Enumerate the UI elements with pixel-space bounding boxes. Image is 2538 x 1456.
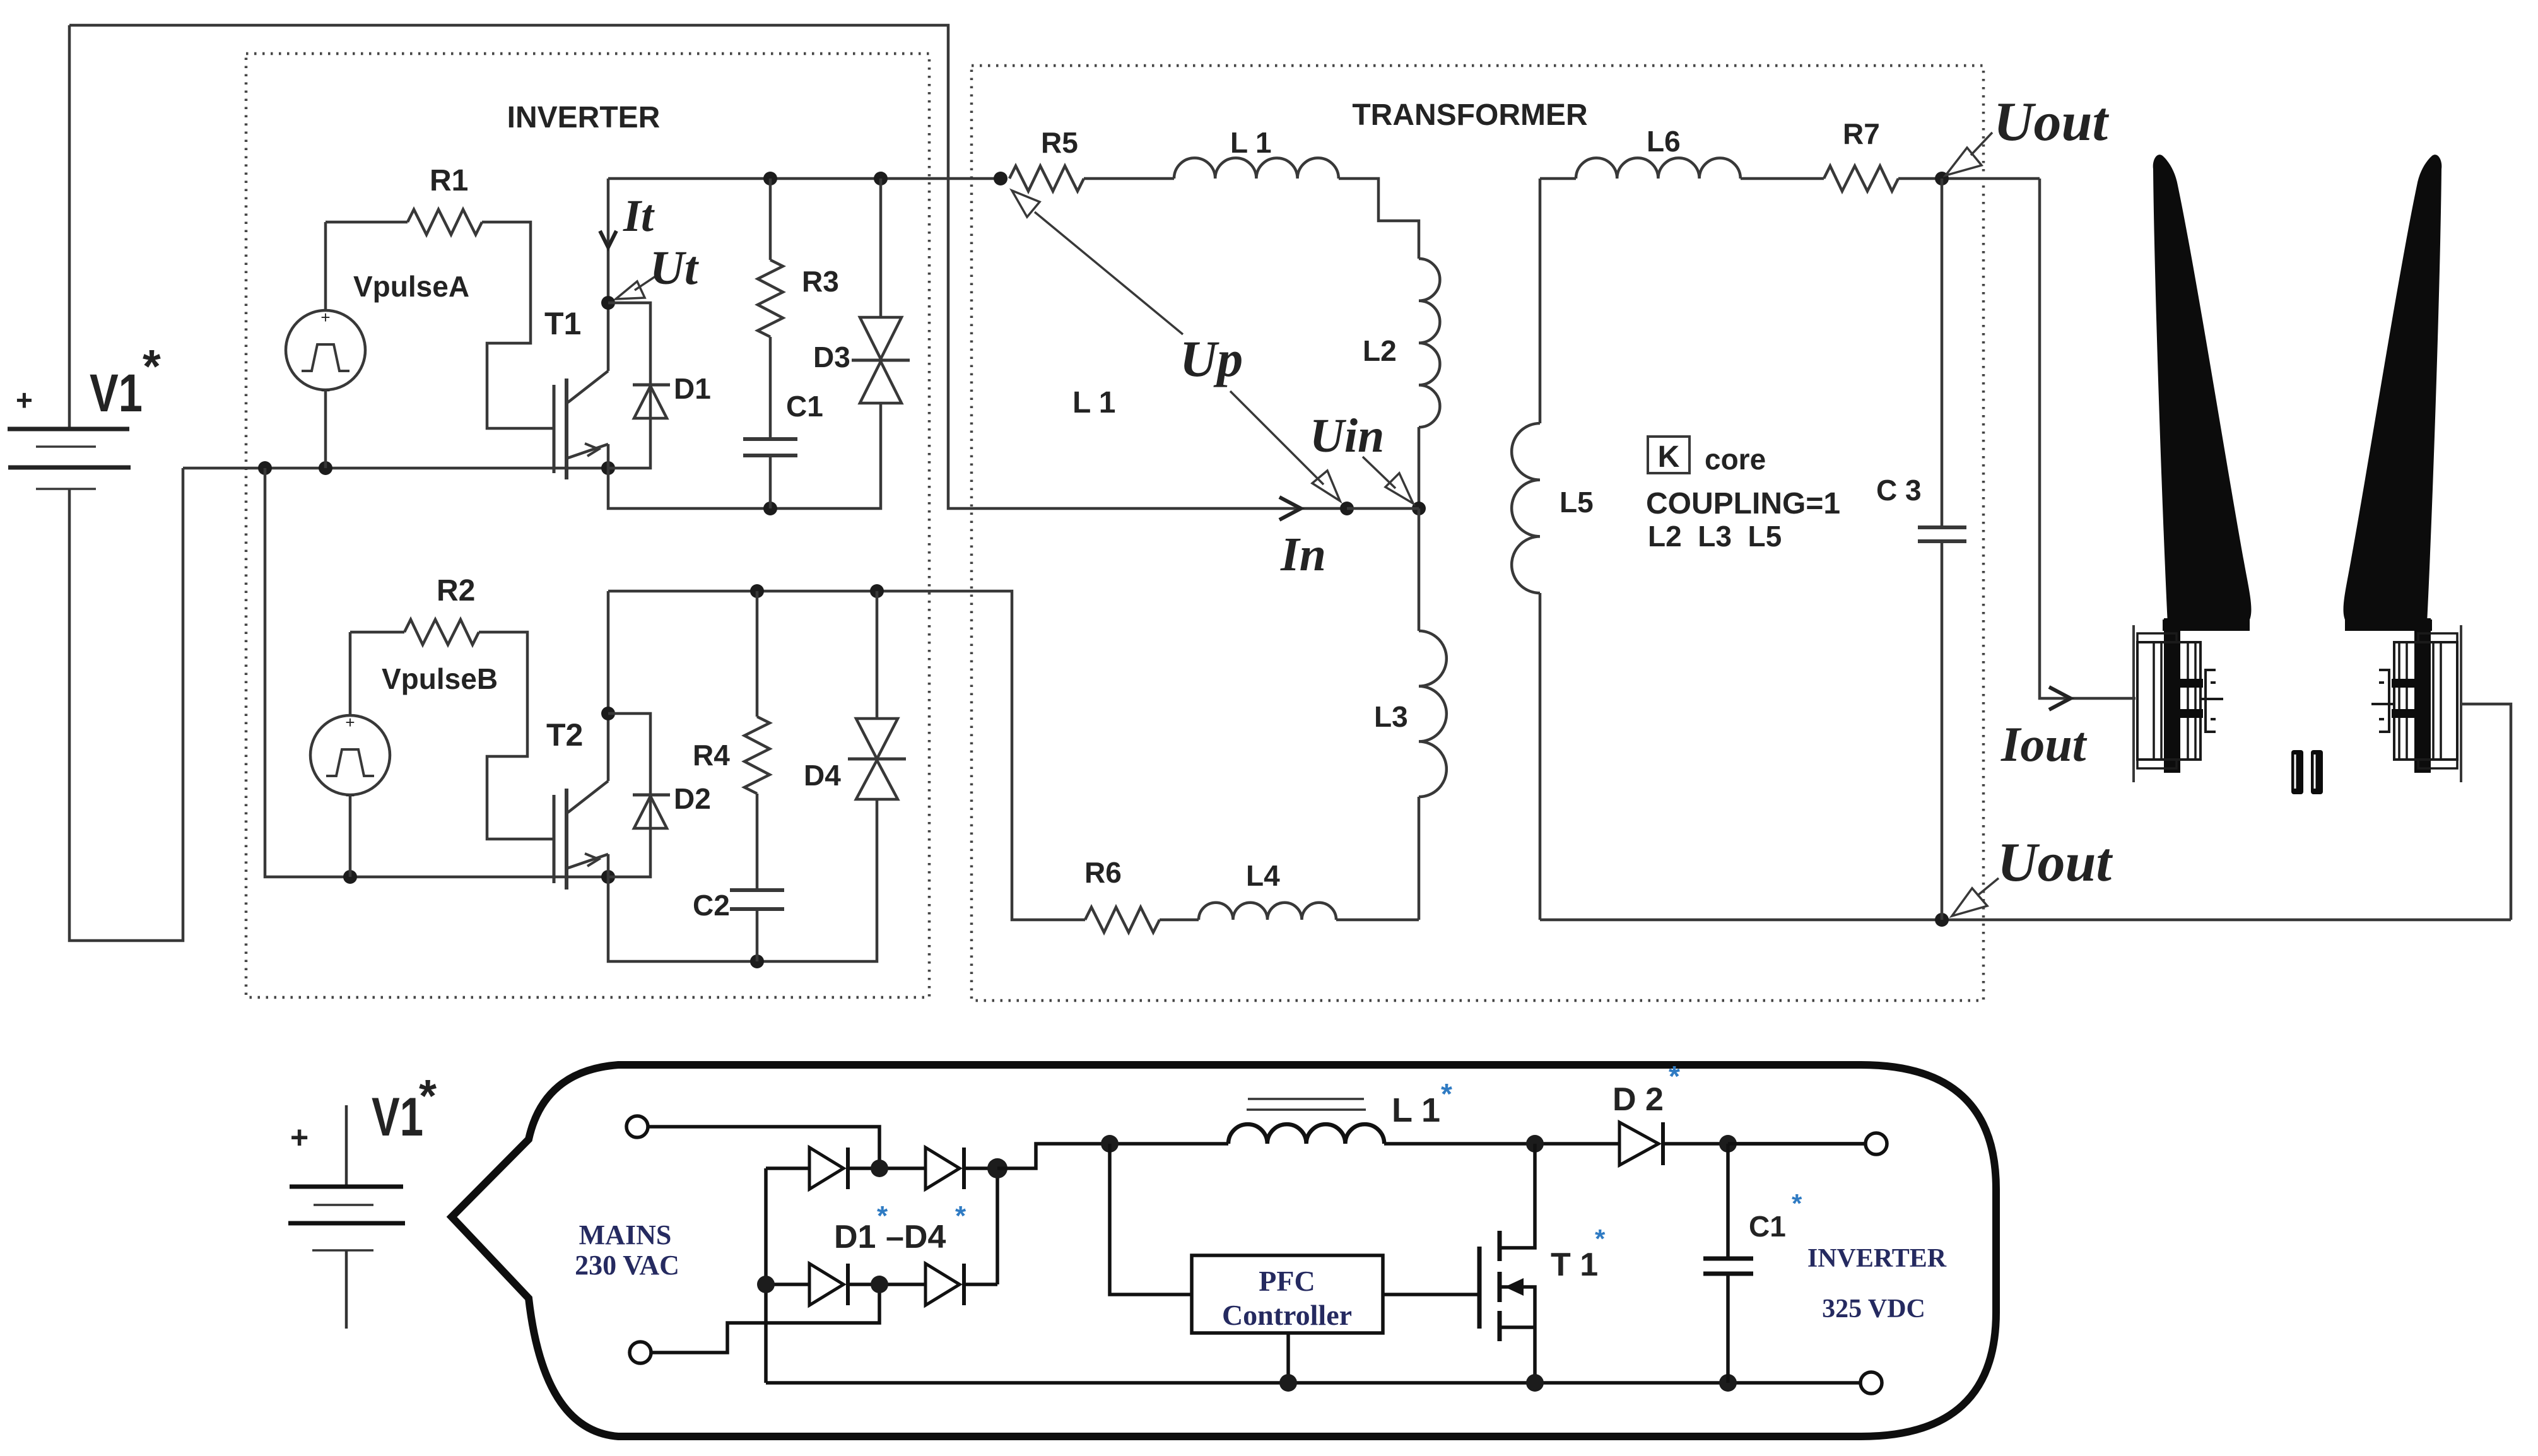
svg-text:*: * [419, 1071, 437, 1122]
label TRANSFORMER [1352, 98, 1587, 132]
svg-text:*: * [1669, 1060, 1680, 1093]
node top rail R3 [763, 172, 777, 185]
svg-text:*: * [955, 1201, 966, 1231]
svg-text:In: In [1280, 528, 1326, 581]
svg-text:R5: R5 [1041, 126, 1078, 159]
node T1* drain [1526, 1135, 1544, 1153]
wire PFC bottom [1286, 1333, 1290, 1383]
svg-text:V1: V1 [90, 363, 143, 423]
wire left drop to lower rail [265, 468, 608, 877]
svg-text:PFC: PFC [1259, 1265, 1315, 1297]
It current arrow [600, 179, 655, 303]
node T1* source [1526, 1374, 1544, 1392]
wire T2 collector drop [607, 591, 610, 713]
svg-text:L3: L3 [1374, 700, 1408, 733]
node mid rail c [601, 461, 615, 475]
node C3 bottom [1935, 913, 1949, 927]
svg-text:T1: T1 [544, 306, 581, 341]
spark gap bars [2291, 750, 2323, 794]
transistor T1 (IGBT) [544, 303, 608, 479]
label D1*-D4* [834, 1201, 966, 1255]
resistor R7 [1824, 117, 2040, 191]
output terminal top [1728, 1133, 1887, 1154]
right forceps connector [2371, 625, 2461, 782]
node mid rail a [258, 461, 272, 475]
svg-text:325 VDC: 325 VDC [1822, 1295, 1925, 1324]
node In [1340, 502, 1354, 515]
svg-text:core: core [1705, 443, 1766, 476]
svg-text:C1: C1 [1749, 1210, 1786, 1243]
PFC bubble outline [452, 1065, 1996, 1436]
wire secondary bottom rail [1540, 919, 2511, 922]
node lower top rail D4 [870, 584, 884, 598]
svg-text:C1: C1 [786, 390, 823, 423]
svg-text:TRANSFORMER: TRANSFORMER [1352, 98, 1587, 132]
wire L1* to D2* [1384, 1142, 1619, 1146]
svg-text:*: * [1595, 1224, 1606, 1253]
svg-text:–D4: –D4 [886, 1219, 946, 1255]
node C1* bottom [1719, 1374, 1737, 1392]
svg-text:V1: V1 [372, 1087, 423, 1148]
capacitor C3 [1876, 179, 1966, 920]
source VpulseB [310, 632, 498, 877]
wire bottom rail [766, 1381, 1860, 1385]
node Uin [1412, 502, 1426, 515]
svg-text:L 1: L 1 [1392, 1091, 1440, 1129]
resistor R6 [1084, 856, 1199, 932]
svg-text:R1: R1 [430, 164, 468, 197]
resistor R5 [1009, 126, 1174, 191]
Uout label bottom [1952, 832, 2113, 916]
wire Uout to left electrode [2040, 179, 2136, 698]
K core coupling text [1646, 437, 1840, 553]
transistor T1* (MOSFET) [1479, 1144, 1606, 1383]
svg-text:Uin: Uin [1310, 409, 1384, 462]
svg-text:+: + [290, 1120, 308, 1155]
Ut probe label [616, 242, 700, 299]
wire bridge out to PFC rail [997, 1144, 1228, 1168]
right forceps shaft [2345, 618, 2432, 773]
inductor L3 [1374, 508, 1447, 920]
mains terminal top [626, 1116, 648, 1137]
svg-text:D 2: D 2 [1613, 1081, 1664, 1118]
node Ut [601, 296, 615, 310]
svg-text:K: K [1658, 440, 1680, 474]
svg-text:It: It [623, 191, 655, 241]
TRANSFORMER dashed box [972, 66, 1983, 1001]
node R5 left [994, 172, 1008, 185]
Iout arrow [2000, 687, 2088, 772]
svg-text:T2: T2 [546, 717, 583, 753]
Up measure arrow [1012, 191, 1340, 501]
left forceps shaft [2163, 618, 2250, 773]
wire mid rail [183, 467, 608, 470]
svg-text:L4: L4 [1246, 859, 1280, 892]
svg-text:Controller: Controller [1222, 1299, 1352, 1331]
svg-text:L 1: L 1 [1230, 126, 1272, 159]
svg-text:L2: L2 [1363, 334, 1397, 367]
label MAINS 230 VAC [575, 1219, 679, 1281]
resistor R4 [693, 591, 770, 890]
diode D2* [1613, 1060, 1865, 1165]
diode D3 (bidirectional) [813, 179, 910, 403]
mains terminal bottom [630, 1342, 651, 1363]
wire mains L to bridge [649, 1127, 879, 1168]
node Uout top [1935, 172, 1949, 185]
svg-text:R6: R6 [1084, 856, 1122, 889]
svg-text:VpulseB: VpulseB [382, 662, 498, 695]
node C1* top [1719, 1135, 1737, 1153]
svg-text:L5: L5 [1560, 486, 1594, 519]
label INVERTER 325 VDC [1807, 1244, 1947, 1324]
svg-text:*: * [143, 340, 161, 392]
inductor L1 top [1174, 126, 1419, 259]
svg-text:COUPLING=1: COUPLING=1 [1646, 487, 1840, 520]
svg-text:D3: D3 [813, 341, 850, 373]
svg-text:230 VAC: 230 VAC [575, 1250, 679, 1281]
svg-text:MAINS: MAINS [579, 1219, 672, 1250]
svg-text:R2: R2 [437, 574, 475, 608]
left forceps connector [2134, 625, 2223, 782]
node PFC gnd [1279, 1374, 1297, 1392]
svg-text:C 3: C 3 [1876, 474, 1922, 507]
svg-text:D1: D1 [674, 372, 711, 405]
svg-text:INVERTER: INVERTER [507, 101, 661, 134]
svg-text:Up: Up [1180, 330, 1243, 387]
node lower top rail R4 [750, 584, 764, 598]
wire In-Uin [1347, 507, 1419, 510]
inductor L1* with core [1228, 1077, 1452, 1144]
INVERTER dashed box [246, 54, 929, 997]
Uout label top [1946, 91, 2109, 175]
svg-text:+: + [345, 713, 355, 732]
svg-text:Iout: Iout [2000, 717, 2088, 772]
svg-text:Uout: Uout [1994, 91, 2109, 153]
capacitor C1 [743, 390, 823, 508]
battery V1* [8, 25, 183, 941]
wire lower cell bottom rail [608, 799, 877, 961]
node PFC rail left [1101, 1135, 1119, 1153]
svg-text:T 1: T 1 [1551, 1247, 1598, 1283]
wire upper cell top rail [608, 177, 1001, 180]
wire PFC right to gate [1383, 1293, 1479, 1296]
inductor L6 [1540, 125, 1824, 179]
Uin probe label [1310, 409, 1413, 503]
svg-text:VpulseA: VpulseA [353, 270, 469, 303]
svg-text:R7: R7 [1843, 117, 1880, 150]
svg-text:L6: L6 [1647, 125, 1681, 158]
wire right electrode to bottom rail [2462, 704, 2511, 920]
svg-text:Uout: Uout [1997, 832, 2113, 893]
node bottom rail C1 [763, 502, 777, 515]
svg-text:Ut: Ut [650, 242, 700, 295]
wire top loop from V1+ to transformer In node [69, 25, 1345, 508]
svg-text:INVERTER: INVERTER [1807, 1244, 1947, 1273]
bridge rectifier D1*-D4* [757, 1148, 1008, 1383]
label INVERTER [507, 101, 661, 134]
inductor L5 [1512, 179, 1594, 920]
output terminal bottom [1860, 1372, 1882, 1394]
svg-text:*: * [1792, 1189, 1802, 1218]
wire lower cell top rail [608, 591, 1085, 920]
svg-text:D4: D4 [804, 759, 841, 792]
svg-text:+: + [320, 308, 330, 327]
capacitor C2 [693, 889, 784, 961]
transistor T2 (IGBT) [546, 713, 608, 889]
svg-text:C2: C2 [693, 889, 730, 922]
battery V1* (bubble) [288, 1071, 437, 1329]
source VpulseA [286, 222, 469, 468]
svg-text:R4: R4 [693, 739, 730, 772]
svg-text:L 1: L 1 [1072, 386, 1115, 420]
diode D2 [608, 713, 711, 877]
inductor L4 [1199, 859, 1419, 920]
PFC controller box [1192, 1255, 1383, 1333]
In arrow [1279, 497, 1326, 581]
resistor R1 [326, 164, 554, 428]
capacitor C1* [1703, 1144, 1802, 1383]
resistor R3 [758, 179, 839, 439]
svg-text:D2: D2 [674, 782, 711, 815]
node T2 collector [601, 707, 615, 720]
node mid rail b [319, 461, 332, 475]
left forceps blade [2153, 155, 2252, 624]
svg-text:+: + [16, 384, 33, 416]
inductor L2 [1363, 259, 1440, 508]
diode D4 (bidirectional) [804, 591, 906, 799]
node top rail D3 [874, 172, 888, 185]
diode D1 [608, 303, 711, 468]
wire mains N to bridge [652, 1284, 879, 1353]
svg-text:*: * [1441, 1077, 1452, 1110]
svg-text:R3: R3 [802, 265, 839, 298]
right forceps blade [2344, 155, 2442, 624]
svg-text:D1: D1 [834, 1219, 876, 1255]
resistor R2 [350, 574, 554, 839]
wire PFC left [1110, 1144, 1192, 1295]
node lower rail VpulseB [343, 870, 357, 884]
svg-text:L2 L3 L5: L2 L3 L5 [1648, 520, 1782, 553]
wire upper cell bottom rail [608, 403, 881, 508]
node bottom rail C2 [750, 954, 764, 968]
node lower rail T2 [601, 870, 615, 884]
label L 1 (winding) [1072, 386, 1115, 420]
